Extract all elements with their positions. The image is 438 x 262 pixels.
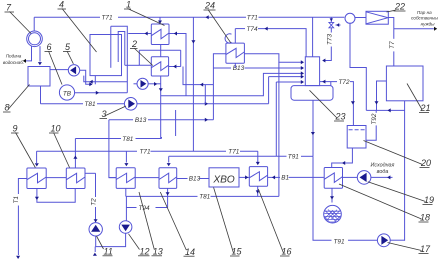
arrow down on box21 left drain [375,101,379,104]
arrow left on tank20 drain [342,161,345,165]
svg-text:3: 3 [102,109,107,119]
svg-text:7: 7 [6,3,12,13]
svg-text:Т73: Т73 [326,34,333,45]
wire: HX18 right to pump19 [343,176,358,178]
label 21 with leader [407,84,431,114]
label 2 with leader [130,39,153,66]
label 12 with leader [129,234,150,257]
svg-text:ТВ: ТВ [63,90,72,97]
wire: line T91-bottom y=240.2 [313,156,377,240]
arrow left on drain y=84.6 [200,83,203,87]
line label T91 (bottom) [334,239,345,246]
arrow right on B13-lower [205,118,208,122]
node circle before ROU-22 [345,13,355,23]
svg-text:Т74: Т74 [247,26,258,33]
arrow into column entry 2 [301,66,304,70]
svg-text:Т81: Т81 [122,136,133,143]
wire: drop into HX16 [257,151,259,162]
arrow on raw water line [387,175,390,179]
HX 14 [159,168,177,189]
wire: circle7 bottom right stub into box 8 [39,46,41,61]
arrow down on heater2 drain above junction [159,88,163,91]
svg-text:19: 19 [424,195,434,205]
wire: line T81-lower y=138.5 [75,138,161,140]
wire: deaerator tank bottom downpipe [312,100,314,156]
pump 19 [357,171,371,185]
pump 12 [119,221,132,234]
svg-text:9: 9 [13,124,18,134]
line label T72 [339,79,350,86]
line label T81 (x=199.5) [199,194,210,201]
wire: pump19 right raw water line [371,176,393,178]
wire: steam-for-own-needs branch [394,28,434,30]
black arrow water supply outlet [23,59,26,63]
wire: HX13-HX14 interconnect [135,177,159,179]
svg-text:Т71: Т71 [228,149,239,156]
wire: box8 drain down to T81 line [40,86,42,104]
svg-text:вода: вода [377,169,389,175]
svg-text:Т2: Т2 [91,198,98,206]
wire: pump12 riser x=126.4 [125,196,127,220]
wire: heater2 right drain y=84.6 to main riser [183,67,213,85]
svg-text:Т1: Т1 [13,196,20,204]
wire: drop into HX9 [36,151,38,163]
wire: line T81 y=103.7 from box8 to riser x=268.6 [41,77,269,104]
wire: drain pump outlet [134,83,161,85]
wire: HX18 bottom to funnel [331,188,333,202]
svg-text:Т91: Т91 [288,154,299,161]
arrow left into heater1 right side [174,32,177,36]
svg-text:Подача: Подача [6,54,22,59]
wire: heater24 bottom drain to B13 [234,63,236,68]
svg-text:Т81: Т81 [85,101,96,108]
valve on T73 line [329,18,341,27]
svg-text:нужды: нужды [421,21,436,26]
wire: right cascade into heater2 right [169,50,181,66]
svg-text:8: 8 [5,103,10,113]
arrow down below HX16 [256,190,260,193]
label 13 with leader [139,192,163,257]
svg-text:12: 12 [140,247,150,257]
svg-text:В13: В13 [189,176,201,183]
wire: ROU outlet to riser x=393.8 [388,18,394,67]
wire: inner inverted-U (top y=31.5, legs 118.2/124.8) [118,32,125,66]
wire: heater24 right outlet to column entry 1 [244,54,301,63]
arrow down into pump11 [94,219,98,222]
label 22 with leader [387,2,406,13]
label 3 with leader [100,106,127,119]
heater 2 (lower network heater) [151,57,168,76]
arrow down into HX9 [35,163,39,166]
label 4 with leader [58,0,97,52]
arrow into column entry 4 [301,75,304,79]
arrow into column entry 5 [301,80,304,84]
wire: riser from T71 corner down to circle 7 [33,17,35,31]
label 24 with leader [204,1,231,43]
wire: pump17 to right riser [390,239,404,241]
wire: riser x=125.8 from T81-low to HX13 bottom [125,188,127,196]
arrow right on TV line [96,91,99,95]
svg-text:18: 18 [420,213,430,223]
XBO box 15 (water treatment) [209,168,239,187]
svg-text:4: 4 [59,0,64,10]
wire: box8 right to pump5 [50,69,68,71]
wire: HX16 bottom drain [257,186,259,196]
pump 11 [89,223,102,236]
wire: HX9 bottom drain U to HX10 bottom [37,189,75,203]
wire: pumps bottom header y=246.6 [96,233,126,246]
wire: HX10 riser x=75.4 [74,139,76,169]
line label T81 (x=85) [85,101,96,108]
arrow down into tank 20 feed [351,101,355,104]
wire: line B13-upper y=68 [213,67,301,69]
label 6 with leader [45,42,63,85]
wire: vertical stub x=175.6 [175,110,177,136]
svg-text:В13: В13 [135,117,147,124]
wire: drop into HX14 [168,156,170,162]
line label T73 (vertical) [326,34,333,45]
wire: T2 riser down to pump11 [95,173,97,222]
wire: column top feed from T71 [312,17,314,57]
HX 10 [66,168,85,189]
arrow left into heater2 right side [173,65,176,69]
wire: circle to ROU [355,17,366,19]
wire: line T71 (top main) y=17.3 with label gaps [34,16,344,18]
heater 24 [226,43,245,63]
wire: box21 left drain [377,81,387,110]
box 21 (boiler) [386,66,423,101]
line label T1 (vertical) [13,196,20,204]
wire: line T94 y=207.5 [126,207,167,209]
line label B1 (x=281.5) [281,175,289,182]
wire: line T81-low y=196.4 [126,195,279,197]
wire: tank20 bottom drain to HX18 [332,148,353,167]
wire: main riser x=213.4 [213,54,226,120]
wire: line B13-lower y=119.8 [109,119,213,121]
box 8 (consumer box) [28,67,50,87]
wire: line T91-upper y=156.3 [169,155,313,157]
svg-text:Т81: Т81 [199,194,210,201]
wire: circle7a drop then right then down x=366.3 [350,23,366,110]
pump 17 [377,234,390,247]
arrow down on HX14 drain [166,192,170,195]
line label T71 (x=140) [140,149,151,156]
arrow down on tank downpipe [311,132,315,135]
label 20 with leader [364,141,432,169]
arrow down on long vertical [191,40,195,43]
wire: T72 stub into tank [330,82,332,86]
wire: line B1 y=177.4 [268,176,324,178]
arrow down into funnel [330,196,334,199]
pump (heater drain pump) near heater2 [137,78,148,89]
wire: left cascade into heater2 left [125,50,152,65]
node circle 7 (double circle, water source) [27,31,43,47]
line label T71 (x=228.5) [228,149,239,156]
arrow up below header [93,253,97,256]
arrow left on y=110.4 [388,108,391,112]
wire: column entry 5 line y=82 [276,82,301,156]
tank 20 (make-up tank with level) [347,126,366,149]
arrow left on branch y=81.7 [90,80,93,84]
arrow left into column right top [322,59,325,63]
wire: HX9-HX10 interconnect [46,177,66,179]
label 18 with leader [339,184,430,223]
wire: line T71-second y=151.2 [37,150,258,152]
arrow on T71 line at x=208 pointing left [206,15,209,19]
label 10 with leader [49,124,70,168]
svg-text:11: 11 [104,247,113,257]
arrow into column entry 3 [301,71,304,75]
deaerator tank 23 [291,86,333,101]
arrow left on heater1 left outlet [145,32,148,36]
box 4 (tank) [90,35,122,76]
arrow up on HX10 riser [73,156,77,159]
wire: heater24 top feed from T74 [234,29,236,43]
svg-text:14: 14 [185,247,195,257]
label 7 with leader [5,3,32,34]
line label T91 (x=288) [288,154,299,161]
line label T71 (top, x=102) [102,15,113,22]
wire: HX9 left to T1 drop [18,179,27,256]
wire: corner x=161.5 up (heater2 drain comes down) [161,137,163,139]
wire: stub below header with arrow [94,247,96,252]
wire: pump5 out down and right into box4 bottom [80,70,96,84]
arrow down into HX16 [256,162,260,165]
line label T92 (vertical) with gap [371,113,378,126]
ROU 22 (reduction unit, rect with diagonals) [366,11,388,24]
svg-text:Т91: Т91 [334,239,345,246]
arrow left into HX16 right [272,175,275,179]
wire: drop x=205.3 from drain line to T81 [204,85,206,104]
funnel drain symbol (hatched circle) [320,205,343,223]
wire: TV circle right along y=92.7 to leg x=127.3 [75,92,128,94]
wire: drop into HX13 [125,151,127,162]
wire: line y=110.4 under box21 [366,109,404,111]
wire: condensate riser x=278.9 down to T81-lower line [278,62,280,196]
wire: HX10 right line to T2 riser [85,172,96,174]
svg-text:Пар на: Пар на [417,10,432,15]
wire: internal downpipe of box4 [110,26,112,68]
line label T81 (x=122.5) [122,136,133,143]
heater 1 (upper network heater) [151,24,169,45]
arrow down into heater1 [158,21,162,24]
black arrow steam own needs [434,27,437,31]
label 14 with leader [160,192,195,257]
HX 18 [324,168,342,189]
HX 16 [249,167,267,187]
svg-text:В1: В1 [281,175,289,182]
label 23 with leader [310,90,346,121]
wire: long vertical x=193.4 from T71 to T71-second line [192,17,194,151]
label 19 with leader [368,182,434,205]
svg-text:Т71: Т71 [102,15,113,22]
wire: heater1 left outlet to box4 loop leg [128,33,151,35]
svg-text:В13: В13 [233,65,245,72]
label 17 with leader [388,243,432,255]
text 'Podacha vodosnab.' [3,54,24,66]
wire: outer inverted-U over box4 (top y=26.3, leg x=127.3) [111,26,128,92]
label 9 with leader [11,124,35,168]
arrow left on T74 [265,27,268,31]
wire: HX14 bottom drain down to T94 [167,188,169,207]
wire: cascade split line y=50.2 [139,49,180,51]
wire: HX13 left stub [109,177,116,179]
svg-text:6: 6 [47,42,52,52]
label 11 with leader [97,236,113,257]
line label B13 (x=189.5) [189,176,201,183]
wire: column entry 4 from T81 riser [269,76,301,78]
wire: tank20 right to T92 riser [366,110,376,140]
arrow into column entry 1 [301,60,304,64]
svg-text:собственные: собственные [411,16,438,21]
wire: line B13 y=178.5 HX14 to XBO [177,178,209,180]
HX 9 [27,168,46,189]
svg-text:17: 17 [420,244,431,254]
svg-text:ХВО: ХВО [212,175,234,186]
wire: B13 riser x=108.9 down to HX13 left [109,120,116,178]
line label B13 (x=135) [135,117,147,124]
HX 13 [116,168,135,189]
deaerator column 23 (tower) [305,57,319,86]
svg-text:водоснаб.: водоснаб. [3,60,24,65]
wire: heater1 right side line with riser x=186 [169,34,186,96]
svg-text:22: 22 [394,2,405,12]
wire: branch y=81.7 from leg to box4-bottom riser x=83.8 [84,76,128,82]
svg-text:5: 5 [65,42,71,52]
line label T7 (vertical) [389,39,396,52]
svg-text:Исходная: Исходная [371,163,395,169]
svg-text:Т92: Т92 [371,113,378,124]
arrow left into column right (T72) [322,80,325,84]
svg-text:24: 24 [204,1,215,11]
svg-text:Т7: Т7 [389,41,396,49]
node circle 6 'TV' meter [59,85,74,100]
svg-text:10: 10 [51,124,61,134]
arrow on T81 at x=206 pointing right [205,102,208,106]
arrow down on HX9 drain [35,197,39,200]
arrow down into box 8 [38,62,42,65]
label 5 with leader [63,42,73,64]
line label B13 (x=233) [233,65,245,72]
svg-text:2: 2 [131,39,137,49]
arrow right into HX16 [245,175,248,179]
line label T71 (top right, x=247) [247,15,258,22]
arrow down into HX13 [124,163,128,166]
pump 5 [68,65,79,76]
svg-text:1: 1 [126,0,131,10]
line label T2 (vertical) [91,198,98,206]
svg-text:23: 23 [335,112,346,122]
wire: heater2 bottom drain down to T81-lower corner [160,76,162,139]
wire: XBO to HX16 [239,176,249,178]
wire: box21 bottom right long vertical x=404.6 [404,101,406,241]
text 'Par na sobstvennye nuzhdy' [411,10,438,26]
wire: line y=95.7 to deaerator column entry [161,73,301,95]
label 8 with leader [3,85,30,113]
svg-text:Т71: Т71 [140,149,151,156]
label 15 with leader [214,188,243,257]
steam curl on heater24 top [225,34,232,43]
arrow right after drain pump [154,82,157,86]
wire: T73 valve line from T71 down to column right [323,17,331,60]
arrow down into HX14 [167,163,171,166]
arrow right into box4 bottom riser [89,82,92,86]
label 1 with leader [124,0,165,26]
text 'Iskhodnaya voda' [371,163,395,176]
wire: circle7 bottom left stub to water-supply outlet [26,46,32,61]
wire: heater1 bottom drain to cascade [160,45,162,57]
wire: line T72 y=81.6 [320,82,354,126]
pump 3 on T81 line [124,98,137,111]
wire: drop from T71 into heater1 top [159,17,161,20]
label 16 with leader [258,189,291,257]
line label T74 [247,26,258,33]
svg-text:Т72: Т72 [339,79,350,86]
svg-text:Т71: Т71 [247,15,258,22]
svg-text:20: 20 [420,158,431,168]
wire: line T74 y=28.6 [235,29,306,57]
line label T94 [139,205,150,212]
arrow down at end of T1 [16,256,20,259]
